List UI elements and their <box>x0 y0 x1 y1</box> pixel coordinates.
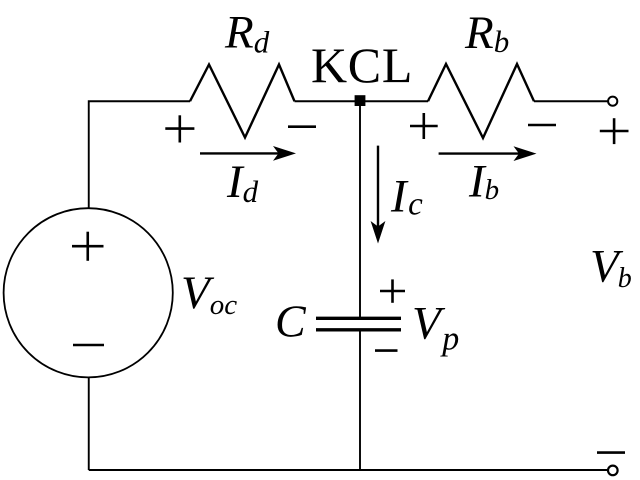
resistor Rd <box>190 65 295 138</box>
current arrow Ic <box>371 146 386 244</box>
minus above bottom terminal <box>597 451 625 454</box>
wire source bottom to bottom rail <box>88 377 90 470</box>
top terminal (open circle) <box>608 97 617 106</box>
svg-text:KCL: KCL <box>311 37 413 93</box>
node KCL junction square <box>355 95 366 106</box>
capacitor C top plate <box>316 317 401 320</box>
wire top-left corner (source top to Rd) <box>89 101 190 208</box>
minus below capacitor <box>375 349 398 352</box>
resistor Rb <box>428 64 534 138</box>
minus right of Rd <box>288 125 316 128</box>
svg-text:C: C <box>275 296 307 347</box>
voltage source Voc circle <box>4 208 173 377</box>
minus inside source <box>73 344 104 347</box>
minus right of Rb <box>528 124 556 127</box>
plus left of Rd <box>165 115 194 142</box>
plus below top terminal <box>600 118 629 144</box>
bottom terminal (open circle) <box>608 466 618 476</box>
bottom rail wire <box>89 469 608 471</box>
wire Rb to top terminal <box>534 100 608 102</box>
plus above capacitor <box>380 279 405 302</box>
capacitor C bottom plate <box>316 328 401 331</box>
current arrow Id <box>200 146 296 161</box>
plus left of Rb <box>410 113 438 139</box>
plus inside source <box>72 232 104 261</box>
wire Rd to Rb (through node) <box>295 100 429 102</box>
wire capacitor to bottom rail <box>359 332 361 471</box>
wire node to capacitor <box>359 106 361 317</box>
current arrow Ib <box>439 146 537 161</box>
